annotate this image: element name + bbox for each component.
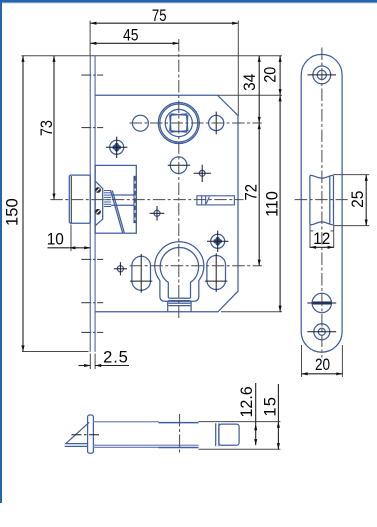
- case bottom edge: [93, 444, 198, 446]
- right screw slot oval: [207, 256, 226, 290]
- latch centerline: [50, 199, 243, 201]
- latch shaft: [111, 194, 134, 196]
- dim 2.5: [79, 365, 91, 367]
- fixing point marker upper: [110, 140, 124, 154]
- latch head edge line: [70, 176, 72, 223]
- case section edges: [309, 176, 311, 225]
- latch head: [69, 175, 90, 223]
- dim 10: [48, 247, 70, 249]
- small hole with cross right of latch: [154, 210, 160, 216]
- small hole with cross: [199, 170, 205, 176]
- latch tail bar: [134, 176, 136, 222]
- dimension lines: [23, 23, 366, 449]
- case top edge: [93, 421, 159, 423]
- svg-text:110: 110: [263, 191, 281, 217]
- latch bolt under edge: [65, 445, 88, 447]
- bottom view vertical centerline: [179, 414, 181, 453]
- latch tail block: [219, 424, 239, 445]
- svg-text:10: 10: [47, 230, 64, 249]
- dim 25: [365, 175, 367, 226]
- 20 bottom extensions: [301, 345, 303, 377]
- svg-text:45: 45: [123, 26, 139, 44]
- 75 right extension: [237, 21, 239, 117]
- 12 extensions: [309, 225, 311, 248]
- BOTTOM VIEW latch bolt: [65, 415, 240, 453]
- hole below hub cross line: [168, 164, 190, 166]
- LOCK BODY FRONT VIEW: [69, 56, 238, 352]
- latch bolt bevel: [66, 422, 89, 443]
- latch tail hidden line: [134, 176, 136, 222]
- cross on lower fixing marker: [217, 231, 219, 252]
- page border frame: [0, 0, 377, 3]
- bottom view top extension: [199, 421, 281, 423]
- dim 73: [53, 56, 55, 200]
- fixing marker petals lower: [213, 237, 222, 246]
- locking pin: [197, 196, 235, 205]
- svg-text:12.6: 12.6: [238, 386, 256, 417]
- spindle square: [170, 114, 188, 132]
- faceplate plate outline: [301, 54, 342, 352]
- extension lines: [22, 21, 370, 450]
- hub/cylinder vertical centerline: [178, 39, 180, 321]
- faceplate bottom extension: [22, 351, 89, 353]
- dim 45: [90, 42, 179, 44]
- side view centerline vertical: [321, 48, 323, 358]
- slotted screw hole: [312, 293, 331, 312]
- partition lines: [215, 423, 217, 446]
- side view centerline horizontal: [295, 199, 348, 201]
- faceplate strip front view: [90, 56, 95, 352]
- fixing point marker lower: [211, 234, 225, 248]
- 2.5 extensions: [89, 354, 91, 370]
- top face extension line: [22, 55, 283, 57]
- svg-text:20: 20: [261, 67, 279, 83]
- dim 12.6: [255, 383, 257, 424]
- cross on right hub hole: [215, 112, 217, 135]
- dimension labels: [3, 6, 367, 417]
- left screw slot oval: [132, 256, 151, 290]
- dim 15: [277, 384, 279, 422]
- dim 20: [279, 56, 281, 95]
- hole left of hub: [132, 115, 148, 131]
- dim 110: [279, 95, 281, 312]
- bottom view bottom extension: [199, 448, 281, 450]
- bottom view latch centerline: [72, 434, 101, 436]
- latch guide block: [95, 182, 103, 225]
- hub horizontal centerline: [130, 122, 262, 124]
- follower hub circles: [158, 103, 199, 144]
- svg-text:34: 34: [240, 74, 259, 91]
- SIDE VIEW faceplate: [301, 54, 342, 352]
- svg-text:73: 73: [38, 120, 56, 136]
- side view hole cross lines: [307, 75, 336, 332]
- small hole left of oval: [117, 266, 123, 272]
- screw slot bar: [313, 301, 331, 304]
- latch screws: [95, 187, 101, 215]
- bottom screw hole: [314, 324, 330, 340]
- cylinder inner profile: [160, 248, 198, 298]
- dim 20 side: [302, 373, 343, 375]
- svg-text:2.5: 2.5: [103, 347, 128, 366]
- faceplate tick marks: [81, 75, 103, 332]
- case bottom extension: [221, 311, 282, 313]
- hole below hub: [170, 157, 187, 174]
- dim 150: [22, 56, 24, 352]
- hole right of hub: [209, 115, 224, 130]
- dim 72: [258, 123, 260, 266]
- dim 75: [90, 22, 238, 24]
- cross on small hole left of oval: [119, 262, 121, 275]
- svg-text:20: 20: [315, 356, 330, 375]
- dim 34: [258, 56, 260, 123]
- cylinder hole outer profile: [155, 242, 204, 301]
- latch spring: [104, 191, 111, 207]
- cross on small hole: [201, 165, 203, 182]
- svg-text:12: 12: [313, 229, 330, 248]
- centerlines: [50, 39, 261, 321]
- case top extension: [218, 94, 282, 96]
- faceplate section bar: [88, 415, 94, 453]
- svg-text:25: 25: [348, 190, 367, 207]
- svg-text:15: 15: [261, 396, 280, 417]
- spring lever diagonals: [111, 191, 123, 234]
- cylinder clamp hatch: [168, 298, 190, 306]
- dim 12: [310, 246, 334, 248]
- lock case outline: [95, 95, 238, 312]
- svg-text:150: 150: [3, 198, 22, 226]
- latch housing box: [95, 165, 136, 233]
- cross on upper fixing marker: [116, 137, 118, 158]
- section break line top: [310, 175, 334, 178]
- section break line bottom: [310, 222, 334, 225]
- svg-text:75: 75: [152, 6, 167, 25]
- left oval crosshair: [140, 254, 142, 293]
- right oval crosshair: [215, 253, 217, 292]
- svg-text:72: 72: [243, 184, 261, 201]
- cylinder horizontal centerline: [130, 265, 262, 267]
- fixing marker petals upper: [112, 143, 121, 152]
- crosshairs black: [106, 112, 228, 293]
- cross on small hole right of latch: [156, 206, 158, 221]
- latch face extension: [70, 225, 72, 252]
- 75 left extension: [89, 21, 91, 57]
- 25 extensions: [334, 174, 370, 176]
- top screw hole: [313, 66, 331, 84]
